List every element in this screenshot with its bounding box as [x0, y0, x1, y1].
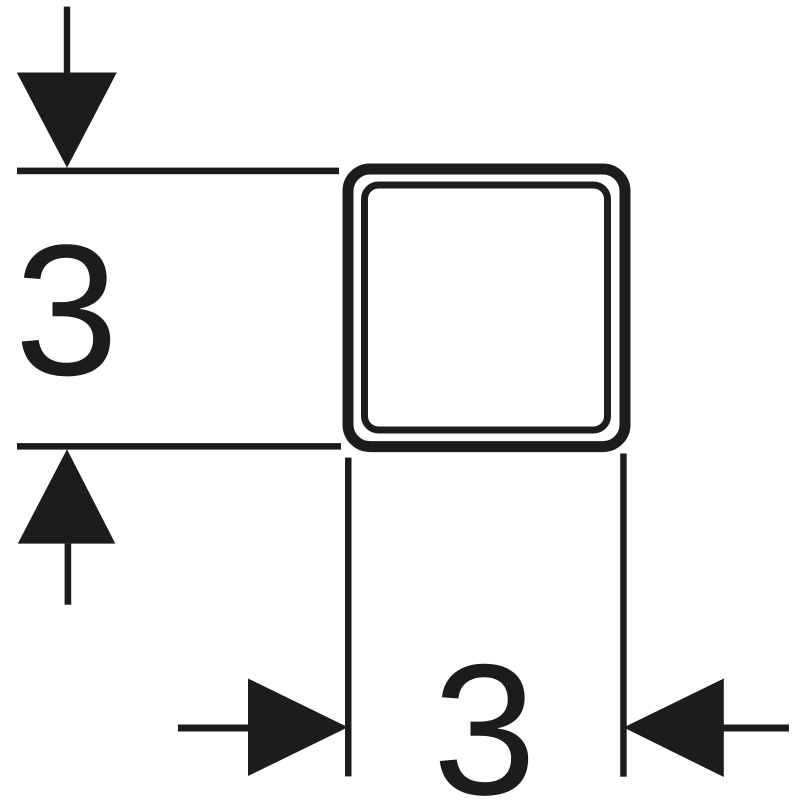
svg-text:3: 3 [433, 625, 537, 800]
svg-text:3: 3 [15, 206, 119, 415]
